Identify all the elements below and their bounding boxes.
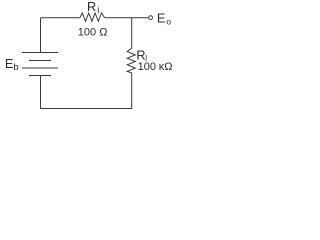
svg-text:R: R bbox=[87, 0, 96, 14]
svg-text:100 Ω: 100 Ω bbox=[78, 27, 108, 39]
svg-text:E: E bbox=[157, 12, 165, 26]
svg-text:i: i bbox=[97, 5, 99, 15]
svg-text:100: 100 bbox=[138, 61, 156, 73]
svg-text:E: E bbox=[5, 57, 13, 71]
svg-text:o: o bbox=[166, 17, 171, 27]
svg-text:κΩ: κΩ bbox=[159, 61, 173, 73]
svg-text:b: b bbox=[13, 62, 18, 73]
